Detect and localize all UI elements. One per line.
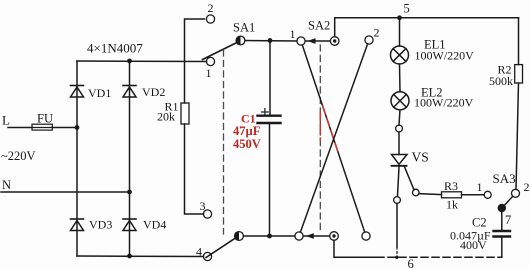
terminal L label	[2, 113, 10, 128]
SA3 contact 1	[477, 180, 492, 198]
diode VD4	[123, 218, 166, 232]
switch SA2 contact left bottom	[295, 232, 303, 240]
wire below connector solid	[396, 203, 398, 247]
wire gate to R3	[419, 194, 441, 195]
svg-text:VS: VS	[412, 150, 429, 165]
capacitor C2	[450, 216, 510, 258]
junction dot C1 top	[268, 38, 273, 43]
wire bridge right column	[129, 61, 131, 256]
label 4x1N4007	[87, 41, 143, 56]
junction node L-VD1/VD3	[75, 125, 80, 130]
wire SA2 top pivot riser to top bus	[335, 18, 519, 37]
svg-text:47µF: 47µF	[233, 124, 261, 138]
red dashes on SA2 link	[319, 112, 321, 140]
junction mark node 6	[395, 256, 398, 259]
label ~220V	[1, 149, 36, 163]
svg-text:4: 4	[196, 245, 202, 259]
wire SA2 crossover B (2 top to left bottom)	[300, 44, 367, 232]
svg-text:C2: C2	[472, 216, 487, 230]
wire connector to VS anode	[398, 132, 400, 155]
switch SA1 arm bottom	[206, 238, 236, 258]
svg-text:VD4: VD4	[143, 218, 166, 232]
wire R3 to SA3 contact 1	[462, 194, 485, 196]
terminal 4 circle SA1	[196, 245, 212, 261]
switch SA3 label	[493, 171, 516, 186]
switch SA1 pivot bottom (half filled)	[235, 232, 244, 241]
connector circle above VS	[396, 125, 403, 132]
SA3 arm	[504, 196, 513, 205]
SA3 contact 2	[512, 180, 530, 197]
wire R1 down to terminal 3	[185, 124, 204, 214]
svg-text:VD1: VD1	[88, 86, 111, 100]
svg-text:L: L	[2, 113, 10, 128]
terminal 3 circle	[200, 199, 212, 218]
svg-text:7: 7	[505, 213, 511, 227]
SA3 pivot node 7	[498, 204, 511, 227]
junction dot C1 bottom	[267, 234, 272, 239]
svg-text:2: 2	[524, 180, 530, 194]
diode VD3	[71, 218, 113, 232]
resistor R1	[157, 100, 189, 125]
thyristor VS	[392, 150, 429, 166]
svg-text:VD2: VD2	[142, 85, 165, 99]
wire EL2 to connector	[399, 110, 400, 125]
wire fuse to bridge left column	[52, 127, 77, 129]
wire SA1 bottom pivot to C1 bottom to SA2 bottom contact	[244, 235, 295, 237]
svg-text:1: 1	[290, 27, 296, 41]
wire N line	[1, 191, 130, 193]
svg-text:FU: FU	[37, 112, 53, 126]
svg-text:~220V: ~220V	[1, 149, 36, 163]
svg-text:SA3: SA3	[493, 171, 516, 186]
junction dot top bus VD2	[127, 59, 132, 64]
wire VS cathode down	[398, 167, 400, 197]
label C1 value (red)	[233, 112, 261, 152]
junction dot bottom bus VD4	[127, 254, 132, 259]
terminal 1 circle SA1	[206, 57, 215, 80]
svg-text:100W/220V: 100W/220V	[414, 96, 474, 110]
switch SA2 contact 2 top	[365, 26, 380, 45]
svg-text:100W/220V: 100W/220V	[415, 49, 475, 63]
VS gate wire	[405, 167, 415, 190]
switch SA2 mech dashed link	[319, 45, 321, 233]
wire EL1 to EL2	[399, 64, 402, 92]
red dashes on crossover A	[323, 106, 338, 152]
svg-text:1k: 1k	[446, 198, 458, 212]
switch SA2 wiper top wire with arrow	[306, 38, 331, 44]
svg-text:2: 2	[208, 1, 214, 15]
svg-text:20k: 20k	[157, 110, 175, 124]
junction node N-VD2/VD4	[127, 190, 132, 195]
svg-text:450V: 450V	[233, 137, 261, 151]
terminal N label	[2, 178, 11, 192]
switch SA2 pivot bottom (double circle)	[330, 232, 339, 241]
wire pivot down to C2	[501, 212, 503, 230]
svg-text:SA1: SA1	[233, 21, 255, 35]
capacitor C1	[258, 41, 281, 237]
svg-text:6: 6	[408, 257, 414, 269]
node 6 label	[408, 257, 414, 269]
switch SA1 mech dashed link	[223, 50, 225, 234]
switch SA1 label	[233, 21, 255, 35]
wire SA2 crossover A (1 top to right bottom)	[302, 45, 364, 232]
fuse FU	[32, 112, 53, 131]
wire SA1 pivot to C1 top to SA2 contact1	[245, 40, 297, 43]
resistor R3	[442, 179, 462, 212]
svg-text:1: 1	[477, 180, 483, 194]
switch SA2 contact 1 top	[290, 27, 306, 45]
svg-text:400V: 400V	[460, 238, 487, 252]
svg-text:500k: 500k	[489, 74, 513, 88]
wire terminal 2 drop	[185, 19, 205, 103]
wire top bus corner down to R2	[518, 18, 520, 65]
wire bridge left column	[76, 61, 78, 256]
switch SA1 pivot top (half filled)	[236, 36, 245, 45]
switch SA2 contact right bottom	[362, 232, 370, 240]
svg-text:1: 1	[206, 66, 212, 80]
wire SA2 bottom pivot drop to bottom bus	[334, 240, 377, 257]
wire top bus of bridge	[77, 60, 207, 63]
resistor R2	[489, 63, 523, 89]
wire L to fuse	[8, 127, 32, 129]
wire dotted to bottom bus	[396, 247, 398, 257]
switch SA2 label	[308, 19, 330, 33]
diode VD2	[123, 85, 165, 99]
svg-text:N: N	[2, 178, 11, 192]
diode VD1	[71, 86, 112, 101]
svg-text:2: 2	[374, 26, 380, 40]
switch SA1 arm top	[203, 43, 238, 60]
switch SA2 pivot top (double circle)	[330, 37, 339, 46]
wire R2 down to SA3 contact 2	[516, 83, 519, 189]
svg-text:4×1N4007: 4×1N4007	[87, 41, 143, 56]
wire node5 to lamp EL1	[399, 18, 401, 46]
connector circle below VS	[394, 197, 401, 204]
svg-text:5: 5	[404, 2, 410, 16]
svg-text:3: 3	[200, 199, 206, 213]
node 5 junction	[397, 2, 410, 21]
gate connector circle	[413, 189, 420, 196]
wire bottom bus dashed part	[377, 256, 502, 258]
lamp EL1	[391, 38, 475, 65]
svg-text:VD3: VD3	[89, 218, 112, 232]
switch SA2 wiper bottom wire with arrow	[304, 233, 330, 239]
svg-text:R3: R3	[444, 179, 458, 193]
terminal 2 circle	[206, 1, 214, 23]
svg-text:SA2: SA2	[308, 19, 330, 33]
wire bottom bus of bridge	[77, 255, 204, 258]
lamp EL2	[391, 86, 474, 110]
